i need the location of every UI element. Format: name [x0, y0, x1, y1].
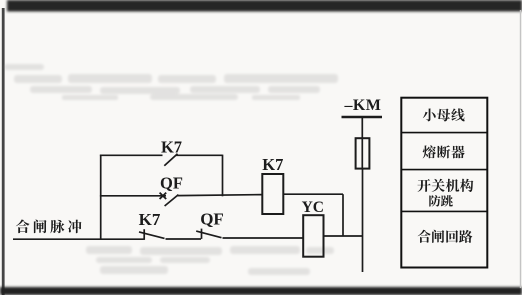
- wire: closing-pulse input line (left segment): [13, 238, 144, 240]
- wire: YC coil output to right bus drop: [324, 235, 363, 237]
- label 合闸回路: [418, 230, 473, 243]
- wire: drop from -KM bus to fuse: [361, 117, 363, 138]
- contact QF (normally-open, bottom line): [196, 229, 221, 239]
- contact QF (middle branch): [165, 195, 179, 206]
- svg-text:QF: QF: [160, 174, 183, 193]
- label 熔断器: [423, 145, 465, 158]
- wire: K7 coil output to corner: [283, 193, 343, 195]
- wire: top branch left segment: [100, 154, 163, 156]
- legend table frame: [401, 98, 487, 268]
- wire: right vertical of parallel loop: [222, 155, 224, 197]
- wire: right vertical feeder below fuse: [362, 169, 364, 273]
- wire: bottom line from QF contact to YC coil: [223, 237, 304, 239]
- contact K7 (top branch): [164, 154, 177, 166]
- svg-text:K7: K7: [262, 155, 283, 174]
- label 开关机构: [417, 179, 473, 192]
- solenoid coil YC (closing coil): [303, 215, 323, 257]
- wire: through fuse: [361, 138, 363, 169]
- svg-text:K7: K7: [161, 138, 182, 157]
- svg-text:QF: QF: [200, 209, 224, 228]
- relay coil K7: [262, 174, 283, 214]
- svg-text:K7: K7: [139, 210, 161, 229]
- label 防跳: [429, 195, 453, 207]
- label 小母线: [423, 108, 465, 121]
- wire: top branch right segment: [176, 154, 223, 156]
- svg-text:YC: YC: [302, 199, 324, 216]
- label 合闸脉冲: [16, 220, 82, 234]
- bus bar -KM: [342, 116, 383, 119]
- wire: corner drop to YC output line: [342, 194, 344, 236]
- wire: middle branch left segment: [100, 195, 166, 197]
- contact K7 (normally-open, bottom line): [139, 229, 165, 240]
- fuse FU: [356, 138, 370, 168]
- wire: middle branch to K7 coil: [177, 195, 262, 196]
- wire: between K7 and QF contacts (bottom line): [166, 238, 202, 240]
- legend table row dividers: [401, 133, 487, 212]
- junction cross mark on QF middle contact: [160, 193, 167, 199]
- wire: left vertical riser: [100, 155, 102, 240]
- svg-text:–KM: –KM: [344, 97, 382, 114]
